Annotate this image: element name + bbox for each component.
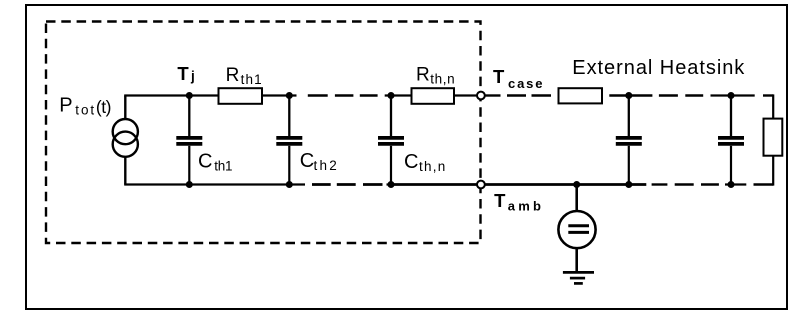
node dot bottom rail x=576 (source tap) [573,181,580,188]
node dot bottom rail x=731 [728,181,735,188]
wire: top rail dashed segment (node289 to node391) [308,94,378,96]
capacitor Cth,n [378,96,404,185]
wire: bottom rail stub at node 731 [725,183,746,185]
wire: top rail Rth1 to node [262,94,297,96]
wire: bottom rail solid left [125,183,305,184]
svg-text:T: T [493,66,505,87]
node Tamb open terminal [477,181,485,189]
svg-text:C: C [300,150,314,172]
wire: current source top lead [124,96,126,120]
svg-text:(t): (t) [96,97,112,117]
wire: top rail solid left (Tj to Rth1) [124,94,218,96]
wire: bottom right corner dash [754,183,774,185]
wire: top rail Rth,n to Tcase [454,94,477,96]
svg-text:th,n: th,n [430,71,454,86]
wire: right vertical bottom stub [772,156,774,186]
wire: bottom rail dashed (629 to 731) [652,183,719,185]
node dot top rail x=391 [388,92,395,99]
svg-text:P: P [59,94,72,116]
capacitor Cth2 [276,96,302,185]
wire: dashed Tcase to heatsink resistor [485,94,552,96]
dashed device boundary box [46,22,481,244]
svg-text:C: C [404,151,418,173]
resistor Rth,n [412,88,455,104]
node Tcase open terminal [477,92,485,100]
ground symbol [563,272,594,283]
wire: heatsink resistor to node [609,94,652,97]
node dot top rail x=629 [625,92,632,99]
wire: stub into node 731 [711,94,755,96]
wire: top rail dashed (629 to 731) [659,94,703,96]
svg-text:T: T [494,190,506,211]
wire: top rail stub at node391 [385,94,412,96]
svg-text:amb: amb [508,199,541,214]
node dot bottom rail x=391 [388,181,395,188]
node dot top rail x=289 [286,92,293,99]
capacitor heatsink 1 [616,96,642,185]
node dot bottom rail x=289 [286,181,293,188]
svg-text:tot: tot [75,102,94,117]
svg-text:j: j [190,69,195,84]
svg-text:R: R [226,65,240,86]
wire: right vertical top stub [772,94,774,118]
wire: current source bottom lead [124,157,126,185]
node Tj junction dot [186,92,193,99]
voltage source Tamb (constant temperature) [558,185,595,273]
wire: bottom rail node391 to Tamb [391,183,477,186]
resistor Rth1 [219,88,263,104]
capacitor heatsink 2 [718,96,744,185]
svg-text:External Heatsink: External Heatsink [572,57,745,79]
wire: bottom rail Tamb to node 629 [485,183,647,186]
svg-text:T: T [177,63,189,84]
resistor heatsink vertical (right) [764,119,783,156]
svg-text:th1: th1 [241,72,262,87]
current source P_tot(t) [113,119,138,157]
capacitor Cth1 [176,96,202,185]
resistor heatsink series [559,88,603,103]
node dot bottom rail x=189 [186,181,193,188]
node dot bottom rail x=629 [625,181,632,188]
wire: bottom rail dashed (289 to 391) [312,183,383,186]
svg-text:C: C [198,150,212,172]
svg-text:th1: th1 [214,158,232,173]
wire: top right corner dash into vertical [763,94,773,96]
svg-text:th2: th2 [314,158,337,173]
node dot top rail x=731 [728,92,735,99]
wire: bottom rail stub into node391 [387,183,392,185]
svg-text:R: R [416,64,430,85]
svg-text:case: case [508,76,543,91]
